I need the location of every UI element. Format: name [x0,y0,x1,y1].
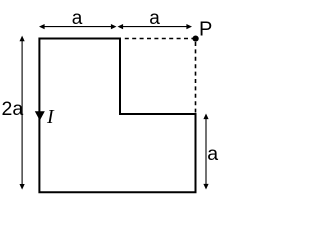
svg-text:2a: 2a [2,98,24,120]
svg-text:a: a [207,143,218,165]
svg-text:a: a [72,8,83,29]
svg-text:I: I [46,106,55,128]
svg-text:a: a [149,8,160,29]
svg-text:P: P [199,19,212,41]
